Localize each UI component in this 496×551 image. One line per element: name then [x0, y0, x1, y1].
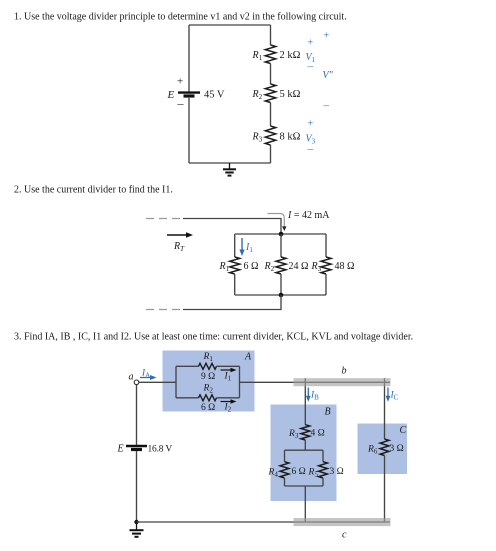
wire dashed bottom left: [146, 309, 183, 311]
svg-text:–: –: [323, 100, 330, 112]
svg-text:16.8 V: 16.8 V: [148, 445, 173, 455]
svg-text:R1: R1: [219, 261, 230, 273]
wire R3 to parallel box: [304, 440, 306, 450]
wire A bottom branch right: [217, 397, 240, 399]
wire R5 branch upper: [322, 450, 324, 462]
svg-text:RT: RT: [173, 241, 185, 253]
wire A output to node b: [240, 381, 385, 383]
node a terminal: [134, 380, 139, 385]
wire stub through bar c at B branch: [304, 518, 306, 522]
wire bottom bus: [235, 294, 326, 296]
wire R1-R2: [270, 64, 272, 85]
wire branch R2 upper: [280, 234, 282, 257]
battery E 45V: [178, 93, 200, 96]
block C background: [358, 424, 408, 475]
svg-text:A: A: [244, 352, 252, 363]
svg-text:4 Ω: 4 Ω: [311, 429, 325, 439]
wire R4 branch lower: [284, 478, 286, 486]
svg-text:6 Ω: 6 Ω: [244, 261, 259, 272]
wire circuit1 bottom: [189, 162, 271, 164]
resistor R1 2k: [265, 45, 275, 63]
wire parallel box top bus: [285, 449, 324, 451]
wire a to block A: [139, 381, 176, 383]
svg-text:R3: R3: [252, 131, 263, 143]
wire circuit1 right with resistor gaps: [270, 25, 272, 45]
ground circuit1: [223, 163, 236, 176]
block A background: [163, 351, 255, 412]
wire branch R3 upper: [325, 234, 327, 257]
wire bottom rail to bar c: [137, 521, 391, 523]
wire bottom return: [183, 295, 281, 310]
junction bottom: [279, 293, 284, 298]
svg-text:8 kΩ: 8 kΩ: [280, 132, 301, 143]
resistor R3 4ohm: [301, 425, 310, 440]
wire R6 to bar c: [384, 456, 386, 523]
svg-text:R1: R1: [252, 50, 263, 62]
wire through bar b: [294, 381, 391, 383]
resistor R3 8k: [265, 126, 275, 145]
wire stub through bar b at IC branch: [384, 378, 386, 386]
wire R3-bottom: [270, 145, 272, 163]
svg-text:24 Ω: 24 Ω: [289, 261, 309, 272]
svg-text:c: c: [342, 530, 347, 541]
svg-text:6 Ω: 6 Ω: [201, 403, 215, 413]
svg-text:9 Ω: 9 Ω: [201, 372, 215, 382]
svg-text:R3: R3: [311, 261, 322, 273]
svg-text:2. Use the current divider to: 2. Use the current divider to find the I…: [14, 185, 173, 196]
current arrow I total: [268, 214, 287, 232]
svg-text:2 kΩ: 2 kΩ: [280, 50, 301, 61]
svg-text:IA: IA: [141, 369, 150, 380]
current arrow IB blue: [306, 388, 311, 402]
wire branch R3 lower: [325, 274, 327, 295]
wire circuit1 top: [189, 24, 271, 26]
current arrow I2: [221, 399, 237, 404]
wire dashed top left: [146, 218, 183, 220]
wire through bar c: [294, 521, 391, 523]
wire A left node vertical: [175, 366, 177, 398]
svg-text:E: E: [167, 89, 175, 101]
wire top feed: [183, 219, 281, 235]
svg-text:1. Use the voltage divider pri: 1. Use the voltage divider principle to …: [14, 12, 347, 23]
wire node b to R3: [304, 385, 306, 425]
block B background: [271, 405, 337, 502]
resistor R2 24ohm: [276, 257, 286, 274]
current arrow IC blue: [386, 388, 391, 402]
svg-text:E: E: [117, 444, 124, 455]
svg-text:–: –: [307, 143, 314, 155]
resistor R5 3ohm: [319, 462, 328, 478]
svg-text:IB: IB: [310, 391, 319, 402]
wire R2-R3: [270, 103, 272, 127]
resistor R4 6ohm: [280, 462, 289, 478]
svg-text:3 Ω: 3 Ω: [330, 467, 344, 477]
svg-text:48 Ω: 48 Ω: [335, 261, 355, 272]
wire stub through bar b at IB branch: [304, 378, 306, 386]
svg-text:5 kΩ: 5 kΩ: [280, 89, 301, 100]
resistor R1 9ohm: [199, 363, 217, 369]
battery E 16.8V: [126, 446, 147, 450]
junction ground node: [134, 520, 138, 524]
current arrow RT: [167, 232, 193, 238]
svg-text:–: –: [307, 61, 314, 73]
ground circuit3: [130, 522, 144, 537]
svg-text:+: +: [308, 119, 314, 130]
resistor R6 3ohm: [380, 439, 389, 456]
wire circuit1 left upper: [188, 25, 190, 92]
wire R5 branch lower: [322, 478, 324, 486]
svg-text:a: a: [129, 372, 134, 383]
wire A bottom branch left: [176, 397, 199, 399]
svg-text:I1: I1: [245, 242, 253, 254]
resistor R2 6ohm: [199, 395, 217, 401]
wire parallel box bottom bus: [285, 485, 324, 487]
node c bus bar: [294, 518, 391, 526]
junction top: [279, 232, 284, 237]
svg-text:–: –: [177, 96, 185, 110]
current arrow IA blue: [140, 375, 157, 380]
svg-text:I = 42 mA: I = 42 mA: [287, 210, 330, 221]
svg-text:B: B: [325, 407, 331, 418]
current arrow I1: [221, 368, 237, 373]
svg-text:3. Find IA, IB , IC, I1 and I2: 3. Find IA, IB , IC, I1 and I2. Use at l…: [14, 332, 413, 343]
svg-text:+: +: [177, 76, 183, 88]
wire A top branch left: [176, 365, 199, 367]
resistor R2 5k: [265, 84, 275, 102]
svg-text:C: C: [400, 425, 407, 436]
resistor R3 48ohm: [321, 257, 331, 274]
svg-text:45 V: 45 V: [204, 90, 225, 101]
current arrow I1 blue: [239, 238, 244, 256]
wire a down to battery: [136, 385, 138, 445]
resistor R1 6ohm: [230, 257, 240, 274]
svg-text:3 Ω: 3 Ω: [390, 444, 404, 454]
wire node b to R6: [384, 385, 386, 439]
wire box to bar c: [304, 486, 306, 522]
svg-text:IC: IC: [390, 391, 399, 402]
wire branch R2 lower: [280, 274, 282, 295]
svg-text:6 Ω: 6 Ω: [292, 467, 306, 477]
wire branch R1 lower: [234, 274, 236, 295]
svg-text:V″: V″: [323, 70, 334, 81]
wire stub through bar c at C branch: [384, 518, 386, 522]
svg-text:R2: R2: [252, 89, 263, 101]
wire R4 branch upper: [284, 450, 286, 462]
wire branch R1 upper: [234, 234, 236, 257]
svg-text:+: +: [324, 31, 330, 42]
svg-text:+: +: [308, 38, 314, 49]
node b bus bar: [294, 378, 391, 386]
wire battery to ground junction: [136, 451, 138, 522]
svg-text:b: b: [342, 366, 347, 377]
wire circuit1 left lower: [188, 98, 190, 163]
svg-text:R2: R2: [264, 261, 275, 273]
wire A right node vertical: [239, 366, 241, 398]
wire top bus: [235, 233, 326, 235]
wire A top branch right: [217, 365, 240, 367]
